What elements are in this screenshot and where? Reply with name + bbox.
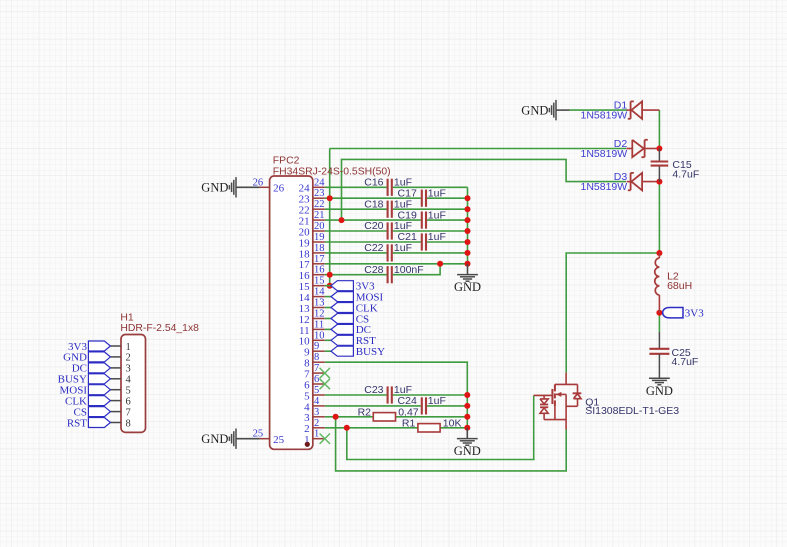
svg-text:GND: GND: [646, 384, 673, 398]
svg-text:20: 20: [314, 221, 325, 232]
svg-text:C28: C28: [364, 264, 383, 276]
svg-text:14: 14: [314, 287, 325, 298]
svg-text:C22: C22: [364, 242, 383, 254]
svg-text:GND: GND: [201, 181, 228, 195]
svg-text:4: 4: [314, 396, 320, 407]
svg-text:C20: C20: [364, 220, 383, 232]
svg-text:26: 26: [273, 183, 285, 195]
svg-text:RST: RST: [67, 417, 87, 429]
svg-text:5: 5: [126, 386, 131, 397]
svg-text:24: 24: [314, 177, 325, 188]
svg-text:2: 2: [126, 353, 131, 364]
svg-text:21: 21: [314, 210, 325, 221]
svg-text:2: 2: [314, 418, 319, 429]
svg-text:22: 22: [314, 199, 325, 210]
svg-text:1uF: 1uF: [428, 395, 446, 407]
svg-text:13: 13: [314, 298, 325, 309]
svg-text:8: 8: [126, 418, 131, 429]
svg-text:15: 15: [314, 276, 325, 287]
svg-text:3V3: 3V3: [685, 308, 704, 320]
svg-text:9: 9: [314, 341, 319, 352]
svg-text:GND: GND: [454, 280, 481, 294]
svg-text:68uH: 68uH: [667, 280, 692, 292]
svg-text:GND: GND: [521, 103, 548, 117]
svg-text:10K: 10K: [443, 418, 462, 430]
svg-text:100nF: 100nF: [394, 264, 424, 276]
svg-text:6: 6: [126, 396, 131, 407]
svg-text:7: 7: [314, 363, 319, 374]
svg-text:7: 7: [126, 407, 131, 418]
svg-text:C23: C23: [364, 384, 383, 396]
svg-text:18: 18: [314, 243, 325, 254]
svg-text:6: 6: [314, 374, 319, 385]
svg-text:4.7uF: 4.7uF: [672, 356, 699, 368]
svg-text:1N5819W: 1N5819W: [580, 110, 627, 122]
svg-text:R1: R1: [402, 418, 416, 430]
svg-text:4: 4: [126, 375, 132, 386]
svg-text:1N5819W: 1N5819W: [580, 181, 627, 193]
svg-text:R2: R2: [358, 407, 372, 419]
svg-text:8: 8: [314, 352, 319, 363]
svg-text:GND: GND: [454, 444, 481, 458]
svg-text:3: 3: [126, 364, 131, 375]
svg-text:FPC2: FPC2: [273, 155, 300, 166]
svg-text:3: 3: [314, 407, 319, 418]
svg-text:SI1308EDL-T1-GE3: SI1308EDL-T1-GE3: [585, 405, 679, 417]
svg-text:11: 11: [314, 319, 324, 330]
svg-text:H1: H1: [120, 313, 134, 324]
svg-text:12: 12: [314, 309, 325, 320]
svg-text:GND: GND: [201, 432, 228, 446]
svg-text:C16: C16: [364, 177, 383, 189]
svg-text:1: 1: [314, 429, 319, 440]
svg-text:1uF: 1uF: [428, 209, 446, 221]
svg-text:5: 5: [314, 385, 319, 396]
svg-text:10: 10: [314, 330, 325, 341]
svg-text:HDR-F-2.54_1x8: HDR-F-2.54_1x8: [120, 323, 199, 334]
svg-text:4.7uF: 4.7uF: [672, 169, 699, 181]
svg-text:17: 17: [314, 254, 325, 265]
svg-text:C24: C24: [398, 395, 417, 407]
svg-text:1uF: 1uF: [394, 242, 412, 254]
svg-text:16: 16: [314, 265, 325, 276]
svg-text:1uF: 1uF: [428, 231, 446, 243]
svg-text:25: 25: [273, 434, 285, 446]
svg-text:C18: C18: [364, 198, 383, 210]
svg-text:1uF: 1uF: [428, 187, 446, 199]
svg-text:1N5819W: 1N5819W: [580, 148, 627, 160]
svg-text:BUSY: BUSY: [356, 346, 385, 358]
svg-text:23: 23: [314, 188, 325, 199]
svg-text:1: 1: [126, 342, 131, 353]
svg-text:19: 19: [314, 232, 325, 243]
